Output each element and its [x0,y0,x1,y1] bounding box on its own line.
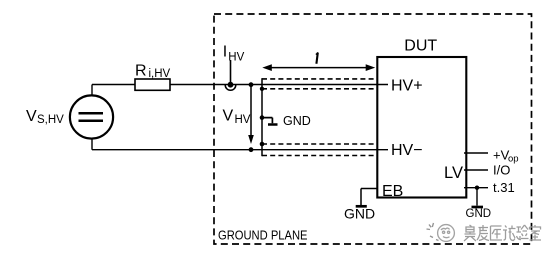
svg-text:V: V [26,108,37,125]
svg-text:S,HV: S,HV [37,114,64,126]
svg-text:i,HV: i,HV [149,68,171,80]
svg-text:GND: GND [283,114,311,128]
svg-text:HV+: HV+ [391,77,423,94]
svg-text:DUT: DUT [404,38,437,55]
svg-text:EB: EB [382,183,403,200]
svg-text:I/O: I/O [493,163,510,178]
svg-text:GND: GND [466,208,492,220]
svg-text:HV: HV [228,52,244,64]
svg-text:t.31: t.31 [493,180,515,195]
svg-text:HV: HV [235,114,251,126]
svg-text:I: I [223,44,227,61]
svg-text:GROUND PLANE: GROUND PLANE [218,228,308,243]
svg-text:LV: LV [444,164,463,182]
svg-text:V: V [223,107,234,124]
svg-text:HV−: HV− [391,142,423,159]
svg-text:R: R [135,63,147,80]
svg-text:GND: GND [344,206,375,222]
